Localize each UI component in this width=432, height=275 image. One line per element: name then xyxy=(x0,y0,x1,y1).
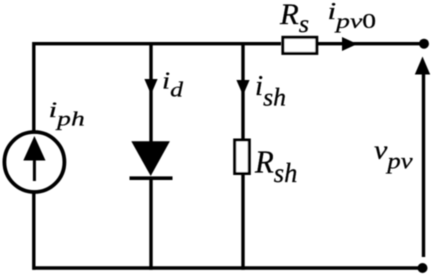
voltage arrow v_pv xyxy=(415,57,430,258)
resistor Rsh xyxy=(235,140,250,174)
resistor Rs xyxy=(283,37,317,53)
svg-text:vpv: vpv xyxy=(374,136,414,174)
svg-text:ish: ish xyxy=(255,71,286,111)
wire diode branch upper xyxy=(149,42,152,142)
wire bottom rail xyxy=(33,266,423,269)
svg-text:ipv0: ipv0 xyxy=(328,0,377,33)
current arrow i_d xyxy=(144,79,157,95)
current arrow i_pv0 xyxy=(342,37,357,51)
wire diode branch lower xyxy=(149,177,152,270)
diode D1 xyxy=(130,141,173,178)
current arrow i_sh xyxy=(236,80,249,95)
wire top rail right of Rs xyxy=(318,42,424,45)
wire Rsh branch lower xyxy=(241,174,244,270)
wire left branch lower xyxy=(32,192,35,270)
svg-text:iph: iph xyxy=(49,97,85,130)
node top right xyxy=(419,39,429,49)
wire Rsh branch upper xyxy=(241,42,244,139)
wire top rail xyxy=(33,42,282,45)
svg-text:Rs: Rs xyxy=(279,0,309,38)
current source arrow xyxy=(23,136,45,181)
svg-text:Rsh: Rsh xyxy=(254,144,297,189)
current source U1 circle xyxy=(4,132,64,192)
wire left branch xyxy=(32,42,35,132)
svg-text:id: id xyxy=(162,67,183,102)
node bottom right xyxy=(418,263,428,273)
